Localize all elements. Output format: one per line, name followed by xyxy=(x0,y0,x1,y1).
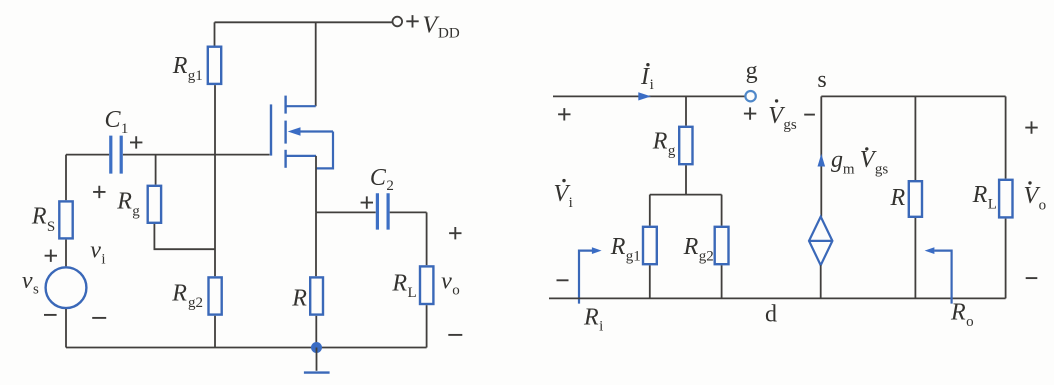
label Ii xyxy=(640,63,654,93)
wire R branch right top xyxy=(914,96,916,180)
wire top right rail xyxy=(821,95,1005,97)
measure arrow Ri xyxy=(579,247,602,303)
wire drain vertical xyxy=(315,22,317,106)
transistor Q1 channel dash 3 xyxy=(284,150,286,168)
minus mark input xyxy=(557,279,569,281)
wire Rg lower xyxy=(685,165,687,194)
plus mark after C1 xyxy=(130,136,142,148)
wire dependent source branch upper xyxy=(820,96,822,216)
capacitor C1 xyxy=(111,136,121,174)
wire R branch top xyxy=(315,212,317,276)
resistor RL xyxy=(420,266,433,304)
minus mark Vgs xyxy=(804,114,815,116)
junction dot ground node xyxy=(311,342,322,353)
wire Rg drop xyxy=(155,155,157,185)
resistor Rg1 xyxy=(208,47,221,84)
plus mark input xyxy=(558,108,570,120)
wire Rg2 bottom xyxy=(721,265,723,298)
resistor Rg right xyxy=(679,127,692,164)
resistor RL right xyxy=(999,180,1012,218)
label +VDD xyxy=(406,12,460,41)
terminal circle +VDD xyxy=(393,17,403,27)
wire right edge upper xyxy=(426,212,428,265)
measure arrow Ro xyxy=(925,247,952,303)
wire parallel top bar xyxy=(650,194,722,196)
transistor Q1 body loop wire xyxy=(316,132,333,169)
plus mark before C2 xyxy=(361,196,373,208)
wire gate left segment xyxy=(66,154,109,156)
wire left edge lower xyxy=(65,309,67,348)
current arrow Ii head xyxy=(638,92,651,100)
wire Rg2 drop xyxy=(721,195,723,226)
transistor Q1 body arrow xyxy=(288,127,333,136)
voltage source vs circle xyxy=(46,267,87,308)
svg-text:R: R xyxy=(291,286,307,312)
wire input top xyxy=(553,95,745,97)
resistor Rg xyxy=(148,186,161,223)
label Vo xyxy=(1024,181,1047,213)
wire Rg bottom elbow xyxy=(154,224,215,249)
label Vgs xyxy=(768,99,797,133)
plus mark vi xyxy=(93,186,105,198)
wire Rg2 bottom stub xyxy=(214,316,216,348)
wire top supply rail xyxy=(215,21,393,23)
wire dependent source branch lower xyxy=(820,265,822,298)
plus mark vo xyxy=(449,227,461,239)
wire bottom rail right circuit xyxy=(549,297,1006,299)
wire source vertical xyxy=(315,156,317,213)
current direction arrow gm xyxy=(818,154,826,167)
wire right edge lower xyxy=(426,305,428,347)
minus mark below source xyxy=(44,314,57,316)
minus mark Vo xyxy=(1026,277,1038,279)
dependent source crossbar xyxy=(809,240,832,242)
wire RS to source xyxy=(65,240,67,267)
svg-text:R: R xyxy=(890,185,906,211)
wire right edge top xyxy=(1005,96,1007,178)
wire output left segment xyxy=(316,211,376,213)
plus mark above source xyxy=(45,250,57,262)
resistor Rg2 right xyxy=(715,227,729,264)
label Vi xyxy=(554,179,573,211)
minus mark vi xyxy=(92,317,106,319)
wire Rg junction drop xyxy=(685,96,687,125)
wire R branch bottom xyxy=(315,316,317,348)
wire gate right segment xyxy=(123,154,270,156)
wire R branch right bottom xyxy=(914,218,916,298)
wire bias divider vertical xyxy=(214,85,216,276)
terminal circle g xyxy=(745,91,755,101)
plus mark below g xyxy=(744,107,756,119)
svg-text:g: g xyxy=(746,58,758,84)
resistor RS xyxy=(59,201,72,238)
ground bar xyxy=(304,371,330,373)
minus mark vo xyxy=(448,334,462,336)
wire Rg1 drop xyxy=(649,195,651,226)
wire Rg1 bottom xyxy=(649,265,651,298)
transistor Q1 drain stub xyxy=(286,105,316,107)
resistor R xyxy=(310,277,323,314)
transistor Q1 channel dash 2 xyxy=(284,121,286,144)
transistor Q1 source stub xyxy=(286,155,316,157)
resistor Rg2 xyxy=(209,277,222,314)
wire right edge bottom xyxy=(1005,219,1007,299)
dependent source U1 diamond xyxy=(809,217,832,266)
capacitor C2 xyxy=(377,193,388,229)
resistor Rg1 right xyxy=(643,227,657,264)
ground stub xyxy=(316,348,318,371)
wire output right segment xyxy=(390,211,427,213)
transistor Q1 gate bar xyxy=(270,104,272,155)
transistor Q1 channel dash 1 xyxy=(284,96,286,114)
wire left edge upper xyxy=(65,155,67,201)
wire bottom rail xyxy=(66,347,427,349)
label gmVgs xyxy=(831,147,888,177)
resistor R right xyxy=(909,181,922,217)
svg-text:d: d xyxy=(765,301,777,327)
wire Rg1 top stub xyxy=(214,22,216,45)
plus mark Vo xyxy=(1025,121,1037,133)
svg-text:s: s xyxy=(817,67,826,93)
